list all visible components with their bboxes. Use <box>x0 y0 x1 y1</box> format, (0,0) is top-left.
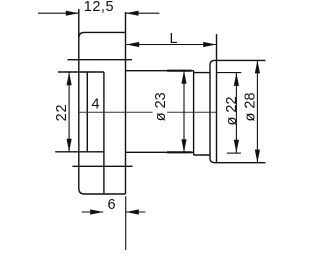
svg-text:ø 23: ø 23 <box>153 92 169 121</box>
svg-text:4: 4 <box>92 96 100 112</box>
svg-text:6: 6 <box>107 197 115 213</box>
svg-text:12,5: 12,5 <box>84 0 114 15</box>
svg-text:22: 22 <box>54 104 70 122</box>
svg-text:ø 28: ø 28 <box>242 92 258 121</box>
svg-text:ø 22: ø 22 <box>224 96 240 125</box>
svg-text:L: L <box>169 31 177 47</box>
